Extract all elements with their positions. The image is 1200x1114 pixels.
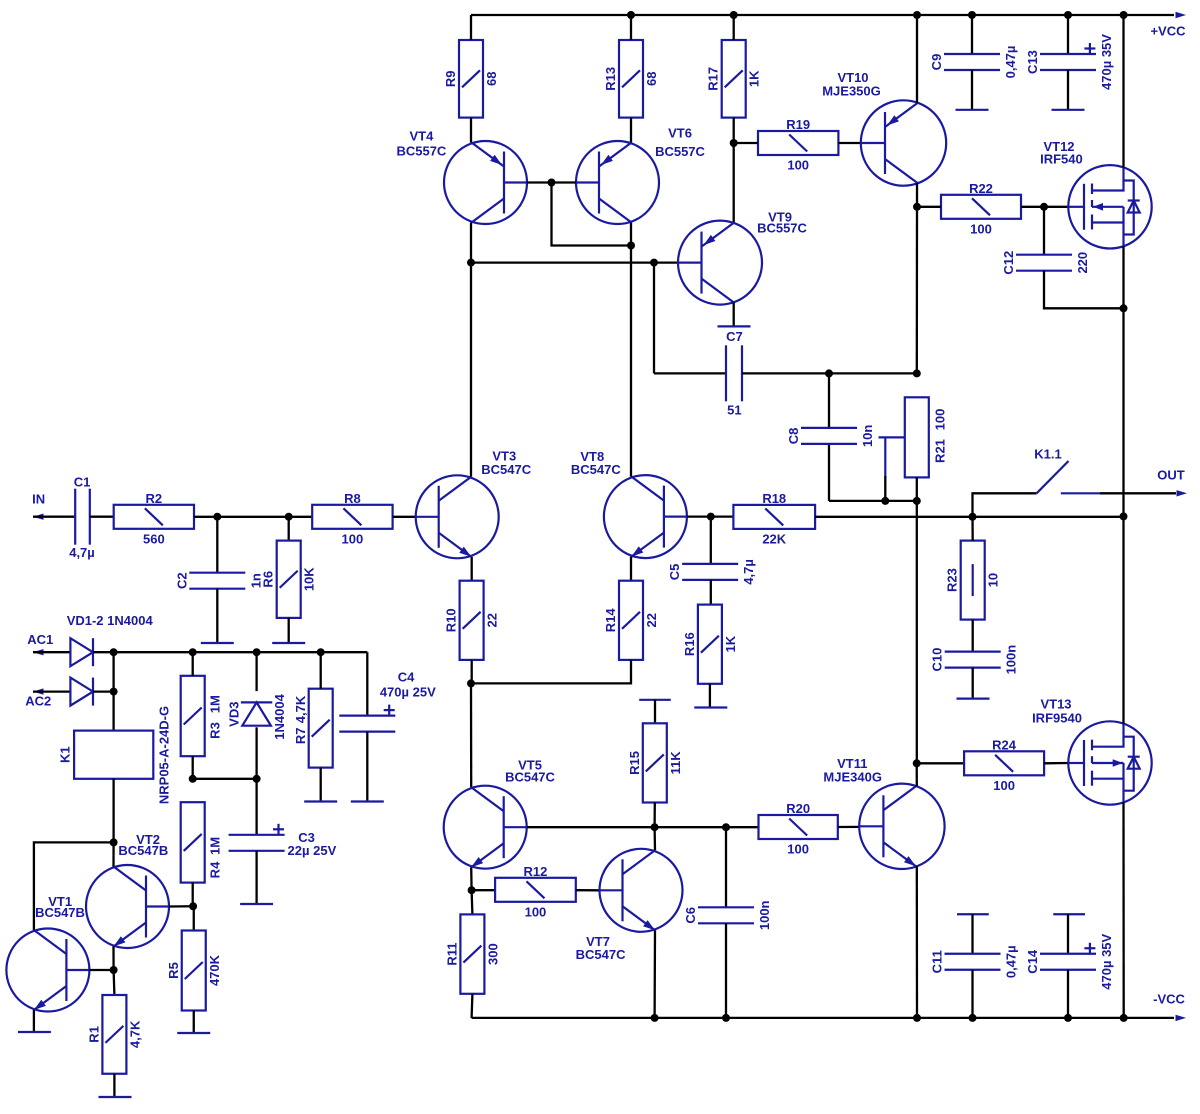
ground bbox=[694, 706, 727, 708]
wire C3 stem bbox=[255, 779, 257, 835]
wire VT4 base to VT6 base bbox=[527, 181, 576, 183]
resistor R10 bbox=[460, 581, 484, 660]
svg-text:BC547C: BC547C bbox=[576, 947, 626, 962]
resistor R16 bbox=[698, 605, 722, 684]
node VT4 collector junction bbox=[467, 259, 475, 267]
wire VT2 collector bbox=[112, 842, 114, 866]
inverted ground C14 bbox=[1053, 913, 1085, 915]
wire C6 stem bbox=[725, 827, 727, 907]
node VT13 rail junction bbox=[1120, 1014, 1128, 1022]
svg-text:C5: C5 bbox=[667, 564, 682, 581]
capacitor C6 bbox=[698, 907, 754, 923]
svg-text:C4: C4 bbox=[398, 670, 415, 685]
svg-text:R1: R1 bbox=[86, 1026, 101, 1043]
wire junction to R19 bbox=[734, 142, 758, 144]
wire R8 to VT3 base bbox=[393, 516, 416, 518]
wire VT9 collector to ground bbox=[733, 303, 735, 327]
wire VT8 emitter to R14 bbox=[630, 557, 632, 581]
wire R22 left bbox=[917, 206, 941, 208]
transistor VT7 BC547C bbox=[600, 849, 683, 932]
wire C4 to ground bbox=[366, 732, 368, 802]
resistor R19 bbox=[758, 131, 838, 155]
wire C2 stem bbox=[216, 517, 218, 573]
wire R20 to VT11 base bbox=[838, 826, 860, 828]
svg-text:C8: C8 bbox=[786, 428, 801, 445]
resistor R23 bbox=[961, 541, 985, 620]
wire lower bus bbox=[193, 778, 257, 780]
wire VT1 base from node bbox=[89, 969, 113, 971]
wire VT10 collector to C7 net bbox=[916, 207, 919, 374]
wire R1 stem bbox=[112, 970, 115, 995]
wire output node up to relay bbox=[973, 493, 1037, 516]
node VD3/C3 junction bbox=[253, 775, 261, 783]
wire AC2 to VD2 bbox=[33, 690, 70, 692]
wire VT7 emitter down bbox=[653, 930, 656, 1018]
node VD3 junction bbox=[253, 648, 261, 656]
wire C11 to bottom rail bbox=[971, 970, 973, 1018]
resistor R2 bbox=[114, 505, 194, 529]
transistor VT3 BC547C bbox=[416, 475, 499, 558]
node R21 top junction bbox=[913, 369, 921, 377]
relay coil K1 bbox=[74, 731, 153, 779]
wire C8 down bbox=[828, 445, 830, 501]
ground bbox=[272, 642, 305, 644]
svg-text:VD1-2 1N4004: VD1-2 1N4004 bbox=[67, 613, 154, 628]
svg-text:470K: 470K bbox=[207, 954, 222, 986]
wire tail rail (R10-R14) bbox=[471, 660, 631, 684]
wire rectified bus bbox=[114, 651, 368, 653]
capacitor C9 bbox=[944, 54, 1000, 70]
node C7 branch junction bbox=[650, 259, 658, 267]
wire VD1 to node bbox=[93, 651, 114, 653]
svg-text:R21: R21 bbox=[933, 439, 948, 463]
svg-text:-VCC: -VCC bbox=[1153, 992, 1185, 1007]
wire C2 to ground bbox=[216, 589, 218, 643]
node R17 rail junction bbox=[730, 11, 738, 19]
svg-text:R17: R17 bbox=[706, 67, 721, 91]
wire R21 bottom bbox=[916, 477, 918, 501]
svg-text:C13: C13 bbox=[1025, 50, 1040, 74]
node C12 output junction bbox=[1120, 304, 1128, 312]
wire R24 to VT13 gate bbox=[1044, 762, 1068, 765]
wire R3 to lower bus bbox=[192, 756, 194, 779]
svg-text:+VCC: +VCC bbox=[1150, 24, 1186, 39]
wire node to R12 bbox=[472, 889, 496, 891]
inverted ground R15 bbox=[639, 699, 671, 701]
svg-text:R11: R11 bbox=[444, 943, 459, 966]
node C11 rail junction bbox=[969, 1014, 977, 1022]
wire VD2 to node bbox=[93, 690, 114, 692]
resistor R22 bbox=[941, 195, 1021, 219]
wire R5 to ground bbox=[193, 1011, 195, 1034]
svg-text:R10: R10 bbox=[444, 608, 459, 632]
resistor R3 bbox=[181, 676, 205, 756]
node VT12 rail junction bbox=[1120, 11, 1128, 19]
svg-text:0,47µ: 0,47µ bbox=[1004, 945, 1019, 978]
node VT5 emitter junction bbox=[468, 886, 476, 894]
capacitor C14 bbox=[1040, 943, 1096, 970]
node C6 rail junction bbox=[722, 1014, 730, 1022]
wire ground to C11 bbox=[971, 914, 973, 954]
svg-text:AC2: AC2 bbox=[25, 694, 51, 709]
wire VT4 collector down bbox=[470, 223, 472, 263]
inverted ground C11 bbox=[957, 913, 989, 915]
wire VT13 drain to bottom rail bbox=[1122, 802, 1124, 1018]
svg-text:C2: C2 bbox=[174, 572, 189, 589]
wire C3 to ground bbox=[255, 851, 257, 904]
wire R7 to ground bbox=[320, 768, 322, 802]
resistor R15 bbox=[643, 723, 667, 802]
wire VT7 collector up bbox=[653, 827, 656, 850]
svg-text:BC547C: BC547C bbox=[481, 462, 531, 477]
wire VT12 drain to rail bbox=[1122, 15, 1124, 167]
wire VT8 collector up bbox=[630, 223, 632, 477]
node C14 rail junction bbox=[1064, 1014, 1072, 1022]
svg-text:470µ 35V: 470µ 35V bbox=[1099, 933, 1114, 989]
wire VT2 base from node bbox=[169, 905, 193, 908]
diode VD2 bbox=[70, 678, 93, 706]
node R13 rail junction bbox=[627, 11, 635, 19]
transistor VT10 MJE350G bbox=[861, 100, 946, 185]
svg-text:MJE350G: MJE350G bbox=[822, 84, 881, 99]
resistor R11 bbox=[460, 914, 484, 993]
resistor R13 bbox=[619, 40, 643, 118]
svg-text:OUT: OUT bbox=[1157, 468, 1185, 483]
node VT2 base junction bbox=[189, 902, 197, 910]
svg-text:VD3: VD3 bbox=[226, 702, 241, 727]
wire VT3 collector up bbox=[470, 263, 472, 477]
transistor VT6 BC557C bbox=[576, 141, 659, 224]
wire R18 to output rail bbox=[815, 516, 1123, 518]
svg-text:22: 22 bbox=[644, 613, 659, 627]
svg-text:560: 560 bbox=[143, 531, 165, 546]
svg-text:R3: R3 bbox=[207, 722, 222, 739]
wire C13 stem bbox=[1067, 15, 1069, 54]
svg-text:11K: 11K bbox=[668, 751, 683, 775]
wire R9 to VT4 bbox=[470, 118, 472, 143]
svg-text:R15: R15 bbox=[627, 751, 642, 775]
svg-text:C6: C6 bbox=[683, 907, 698, 924]
wire VT3 emitter to R10 bbox=[471, 557, 473, 581]
svg-text:R23: R23 bbox=[945, 568, 960, 592]
capacitor C3 bbox=[229, 824, 285, 851]
node R7 junction bbox=[317, 648, 325, 656]
node VT1 base junction bbox=[110, 966, 118, 974]
wire VT5 base to node bbox=[527, 826, 655, 828]
transistor VT1 BC547B bbox=[6, 929, 89, 1012]
svg-text:R19: R19 bbox=[786, 117, 810, 132]
wire bus to R3 bbox=[192, 652, 194, 676]
wire R1 to ground bbox=[113, 1074, 115, 1097]
wire R10 to tail rail bbox=[471, 660, 473, 684]
diode VD1 bbox=[70, 638, 93, 666]
wire R12 to VT7 base bbox=[576, 889, 599, 891]
resistor R14 bbox=[619, 581, 643, 660]
svg-text:10K: 10K bbox=[302, 567, 317, 591]
svg-text:100: 100 bbox=[787, 842, 809, 857]
svg-text:C12: C12 bbox=[1001, 251, 1016, 275]
node base tie junction bbox=[548, 179, 556, 187]
node C13 rail junction bbox=[1064, 11, 1072, 19]
wire R23 to C10 bbox=[972, 620, 974, 652]
svg-text:R6: R6 bbox=[261, 571, 276, 588]
wire R5 stem bbox=[193, 906, 195, 930]
wire C5 stem bbox=[710, 517, 712, 564]
svg-text:C9: C9 bbox=[929, 54, 944, 71]
capacitor C11 bbox=[945, 954, 1001, 970]
resistor R9 bbox=[459, 40, 483, 118]
node R17/R19/VT9 junction bbox=[730, 139, 738, 147]
svg-text:K1.1: K1.1 bbox=[1034, 447, 1061, 462]
wire R16 to ground bbox=[709, 684, 711, 708]
node C6 junction bbox=[722, 823, 730, 831]
node input bias junction R6 bbox=[285, 513, 293, 521]
resistor R7 bbox=[309, 689, 333, 768]
capacitor C12 bbox=[1016, 255, 1072, 271]
wire K1 to VT2 collector node bbox=[112, 779, 114, 843]
wire bus to VD3 bbox=[255, 652, 257, 691]
capacitor C7 bbox=[726, 345, 742, 401]
svg-text:4,7K: 4,7K bbox=[293, 695, 308, 723]
wire junction down to VT9 bbox=[733, 143, 735, 223]
wire mirror output to VT9 base bbox=[471, 261, 679, 263]
transistor VT8 BC547C bbox=[604, 475, 687, 558]
resistor R17 bbox=[722, 40, 746, 118]
resistor R20 bbox=[759, 815, 838, 839]
wire relay to OUT bbox=[1100, 492, 1176, 494]
capacitor C2 bbox=[189, 573, 245, 589]
transistor VT12 IRF540 MOSFET bbox=[1068, 165, 1151, 248]
wire rail to R9 bbox=[470, 15, 472, 40]
svg-text:VT4: VT4 bbox=[409, 129, 434, 144]
node IN arrow bbox=[33, 514, 44, 520]
wire C10 to ground bbox=[972, 668, 974, 699]
wire VT11 emitter down bbox=[916, 866, 919, 1018]
resistor R5 bbox=[182, 931, 206, 1011]
svg-text:100n: 100n bbox=[1004, 645, 1019, 675]
svg-text:IRF540: IRF540 bbox=[1040, 152, 1083, 167]
wire VT2 emitter down bbox=[112, 947, 114, 971]
svg-text:100: 100 bbox=[787, 158, 809, 173]
wire R2 to R8 bbox=[194, 516, 312, 518]
trimmer tap R21 bbox=[879, 437, 905, 477]
wire VT5 emitter down bbox=[470, 867, 473, 890]
diode VD3 bbox=[241, 702, 272, 725]
wire C12 to output rail bbox=[1044, 271, 1124, 309]
node C8 junction bbox=[825, 369, 833, 377]
svg-text:R8: R8 bbox=[344, 491, 361, 506]
svg-text:100: 100 bbox=[933, 409, 948, 431]
svg-text:BC547B: BC547B bbox=[118, 843, 168, 858]
wire bus corner down to C4 bbox=[366, 652, 368, 715]
wire C8/R21 bottom rail bbox=[829, 500, 917, 502]
node OUT arrow bbox=[1177, 490, 1188, 496]
svg-text:100n: 100n bbox=[757, 900, 772, 930]
node feedback junction (VT8 base / R18 / C5) bbox=[707, 513, 715, 521]
resistor R12 bbox=[495, 878, 576, 902]
node C9 rail junction bbox=[968, 11, 976, 19]
svg-text:R2: R2 bbox=[146, 491, 163, 506]
svg-text:R5: R5 bbox=[166, 962, 181, 979]
svg-text:R18: R18 bbox=[762, 491, 786, 506]
wire C7 net left segment bbox=[654, 372, 726, 374]
svg-text:R4: R4 bbox=[207, 861, 222, 878]
wire ground to C14 bbox=[1067, 914, 1069, 954]
svg-text:K1: K1 bbox=[58, 746, 73, 763]
node VT6 collector junction bbox=[627, 242, 635, 250]
wire VT12 source to output rail bbox=[1122, 246, 1124, 516]
svg-text:AC1: AC1 bbox=[27, 632, 53, 647]
svg-text:100: 100 bbox=[993, 778, 1015, 793]
svg-text:C14: C14 bbox=[1025, 949, 1040, 974]
node VT11 emitter rail junction bbox=[913, 1014, 921, 1022]
transistor VT5 BC547C bbox=[444, 786, 527, 869]
resistor R8 bbox=[312, 505, 392, 529]
wire R6 stem bbox=[288, 517, 290, 541]
svg-text:NRP05-A-24D-G: NRP05-A-24D-G bbox=[157, 706, 172, 804]
wire +VCC top rail bbox=[471, 14, 1174, 16]
node C12 junction bbox=[1040, 203, 1048, 211]
svg-text:10: 10 bbox=[986, 573, 1001, 587]
wire C12 stem bbox=[1043, 207, 1045, 255]
svg-text:1M: 1M bbox=[207, 837, 222, 855]
wire base tie to VT6 collector bbox=[552, 183, 632, 246]
svg-text:IRF9540: IRF9540 bbox=[1032, 711, 1082, 726]
svg-text:C7: C7 bbox=[726, 329, 743, 344]
wire C1 to R2 bbox=[90, 516, 114, 518]
svg-text:BC547C: BC547C bbox=[571, 462, 621, 477]
svg-text:100: 100 bbox=[342, 531, 364, 546]
svg-text:R7: R7 bbox=[293, 727, 308, 744]
svg-text:R12: R12 bbox=[524, 864, 548, 879]
wire R21 net down to VT11 branch bbox=[916, 501, 918, 763]
switch K1.1 relay contact bbox=[1037, 461, 1100, 493]
ground bbox=[956, 109, 989, 111]
wire VT10 emitter to rail bbox=[916, 15, 918, 103]
wire R15 to node bbox=[653, 803, 656, 828]
svg-text:C11: C11 bbox=[930, 950, 945, 973]
svg-text:1K: 1K bbox=[723, 635, 738, 652]
node input bias junction C2 bbox=[213, 513, 221, 521]
svg-text:BC547B: BC547B bbox=[35, 905, 85, 920]
svg-text:1M: 1M bbox=[207, 695, 222, 713]
wire VD3 to lower bus bbox=[255, 727, 257, 779]
wire R4 to VT2 base node bbox=[192, 883, 194, 907]
svg-text:68: 68 bbox=[644, 72, 659, 86]
node VT10 rail junction bbox=[913, 11, 921, 19]
ground bbox=[240, 903, 273, 905]
node VD2 junction bbox=[110, 688, 118, 696]
svg-text:C10: C10 bbox=[930, 648, 945, 672]
resistor R1 bbox=[102, 995, 126, 1074]
node AC1 arrow bbox=[33, 649, 44, 655]
svg-text:R14: R14 bbox=[603, 608, 618, 633]
capacitor C4 bbox=[339, 705, 395, 732]
wire VT8 base to node bbox=[687, 515, 733, 517]
wire AC1 to VD1 bbox=[33, 651, 70, 653]
ground bbox=[177, 1032, 210, 1034]
ground bbox=[1052, 109, 1085, 111]
wire tail down to VT5 bbox=[470, 683, 473, 787]
node VT7 emitter rail junction bbox=[651, 1014, 659, 1022]
svg-text:BC547C: BC547C bbox=[505, 770, 555, 785]
svg-text:0,47µ: 0,47µ bbox=[1003, 46, 1018, 79]
svg-text:C1: C1 bbox=[74, 475, 91, 490]
wire rail to R17 bbox=[733, 15, 735, 40]
resistor R4 bbox=[181, 802, 205, 882]
svg-text:IN: IN bbox=[32, 492, 45, 507]
transistor VT4 BC557C bbox=[444, 141, 527, 224]
node -VCC arrow bbox=[1176, 1015, 1187, 1021]
ground bbox=[18, 1031, 51, 1033]
wire to VT1 collector bbox=[34, 842, 114, 930]
svg-text:R16: R16 bbox=[682, 632, 697, 656]
wire IN to C1 bbox=[33, 516, 75, 518]
transistor VT9 BC557C bbox=[678, 221, 762, 305]
node R3 junction bbox=[189, 648, 197, 656]
ground bbox=[351, 800, 384, 802]
node R21 tap junction bbox=[881, 497, 889, 505]
wire C5 to R16 bbox=[710, 580, 712, 605]
svg-text:R24: R24 bbox=[992, 737, 1017, 752]
wire R22 to VT12 gate bbox=[1021, 206, 1068, 208]
wire R13 to VT6 bbox=[630, 118, 632, 143]
svg-text:1N4004: 1N4004 bbox=[272, 693, 287, 739]
wire feedback node to R23 bbox=[971, 517, 974, 541]
wire rail to R13 bbox=[630, 15, 632, 40]
wire R19 to VT10 base bbox=[838, 142, 861, 144]
node VT11 collector / R24 junction bbox=[913, 759, 921, 767]
wire relay supply down bbox=[112, 652, 114, 730]
node R3/R4 junction bbox=[189, 775, 197, 783]
wire C9 stem bbox=[971, 15, 973, 54]
svg-text:4,7µ: 4,7µ bbox=[741, 559, 756, 585]
wire VT13 source to output rail bbox=[1122, 516, 1124, 723]
svg-text:BC557C: BC557C bbox=[396, 144, 446, 159]
svg-text:1K: 1K bbox=[747, 70, 762, 87]
node VT1/VT2 collector junction bbox=[110, 838, 118, 846]
wire C9 to ground bbox=[971, 70, 973, 110]
wire R11 to bottom rail bbox=[470, 994, 473, 1018]
transistor VT11 MJE340G bbox=[859, 784, 944, 869]
svg-text:BC557C: BC557C bbox=[757, 221, 807, 236]
node +VCC arrow bbox=[1176, 12, 1187, 18]
node R21 bottom junction bbox=[913, 497, 921, 505]
node VD1 junction bbox=[110, 648, 118, 656]
node output rail junction bbox=[1120, 512, 1128, 520]
wire C8 stem bbox=[828, 373, 830, 428]
svg-text:VT6: VT6 bbox=[668, 126, 692, 141]
wire R11 stem bbox=[470, 890, 473, 914]
wire bus to R7 bbox=[320, 652, 322, 689]
svg-text:470µ 25V: 470µ 25V bbox=[380, 685, 436, 700]
svg-text:51: 51 bbox=[727, 403, 741, 418]
svg-text:R20: R20 bbox=[786, 801, 810, 816]
wire R6 to ground bbox=[288, 618, 290, 643]
wire ground to R15 bbox=[654, 700, 656, 724]
ground bbox=[201, 642, 234, 644]
svg-text:220: 220 bbox=[1075, 252, 1090, 274]
resistor R18 bbox=[733, 505, 815, 529]
node AC2 arrow bbox=[33, 688, 44, 694]
capacitor C8 bbox=[801, 428, 857, 444]
ground bbox=[718, 325, 751, 327]
svg-text:10n: 10n bbox=[860, 425, 875, 447]
ground bbox=[957, 697, 990, 699]
svg-text:R13: R13 bbox=[603, 67, 618, 91]
svg-text:VT13: VT13 bbox=[1040, 697, 1071, 712]
wire VT10 collector down bbox=[916, 183, 918, 207]
